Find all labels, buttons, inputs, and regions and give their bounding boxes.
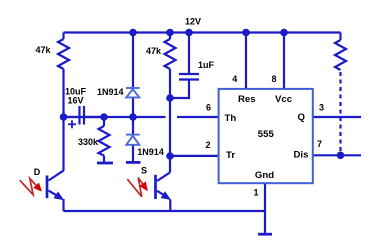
diode D1 1N914 symbol bbox=[126, 88, 140, 97]
node junction D1 on rail bbox=[129, 29, 137, 37]
node junction 1uF bottom bbox=[166, 94, 174, 102]
wire right resistor top lead bbox=[339, 33, 341, 41]
wire pin 1 Gnd lead bbox=[264, 183, 266, 234]
wire 47k2 bottom lead bbox=[169, 69, 171, 98]
wire diode D2 bottom lead bbox=[132, 145, 134, 161]
node junction 1uF on rail bbox=[185, 29, 193, 37]
node A junction left bbox=[60, 113, 68, 121]
op-amp U1 555 IC box bbox=[219, 89, 313, 183]
wire left column lower bbox=[62, 117, 64, 171]
wire 10uF left lead bbox=[64, 116, 79, 118]
capacitor C1 plus sign bbox=[68, 120, 76, 128]
wire 1uF bottom lead bbox=[170, 81, 189, 99]
svg-text:3: 3 bbox=[319, 103, 324, 113]
svg-text:S: S bbox=[141, 166, 147, 176]
terminal bar below 330k bbox=[97, 162, 113, 165]
light arrows to transistor D bbox=[20, 179, 42, 195]
node junction Tr bbox=[166, 152, 174, 160]
svg-text:6: 6 bbox=[206, 103, 211, 113]
wire 330k bottom lead bbox=[103, 156, 105, 164]
svg-text:Res: Res bbox=[238, 94, 256, 105]
wire left column top bbox=[62, 33, 64, 40]
svg-text:1N914: 1N914 bbox=[97, 87, 124, 97]
node junction 47k2 on rail bbox=[166, 29, 174, 37]
svg-text:Th: Th bbox=[225, 113, 237, 124]
svg-text:8: 8 bbox=[271, 74, 276, 84]
wire Th horizontal right segment to pin 6 bbox=[177, 116, 219, 118]
resistor R3 330k bbox=[99, 126, 110, 156]
wire left column middle bbox=[62, 69, 64, 117]
wire 10uF right lead bbox=[85, 116, 104, 118]
terminal bar below D2 bbox=[126, 161, 141, 164]
svg-text:7: 7 bbox=[317, 139, 322, 149]
svg-text:330k: 330k bbox=[78, 137, 99, 147]
wire top 12V rail bbox=[64, 31, 341, 33]
svg-text:Q: Q bbox=[298, 112, 306, 123]
svg-text:4: 4 bbox=[232, 74, 237, 84]
wire dashed to Dis node bbox=[339, 72, 341, 152]
diode D2 1N914 symbol bbox=[126, 135, 140, 145]
node junction 330k bbox=[100, 113, 108, 121]
svg-text:16V: 16V bbox=[67, 95, 83, 105]
wire 1uF top lead bbox=[188, 33, 190, 74]
wire pin 8 Vcc stub bbox=[283, 33, 285, 90]
wire diode D1 bottom lead bbox=[132, 97, 134, 117]
ground bar bbox=[258, 233, 272, 236]
wire 47k2 top lead bbox=[169, 33, 171, 40]
resistor R2 47k second bbox=[165, 39, 176, 69]
svg-text:1N914: 1N914 bbox=[137, 147, 164, 157]
wire pin 4 Res stub bbox=[245, 33, 247, 90]
svg-text:Vcc: Vcc bbox=[275, 94, 293, 105]
svg-text:555: 555 bbox=[258, 129, 275, 140]
wire bottom rail bbox=[64, 210, 266, 212]
capacitor C2 1uF plates bbox=[179, 74, 199, 80]
node junction Dis dashed bbox=[337, 152, 345, 160]
transistor Q2 phototransistor S bbox=[156, 172, 171, 211]
wire Th horizontal left segment bbox=[64, 116, 166, 118]
svg-text:1uF: 1uF bbox=[198, 60, 215, 70]
svg-text:47k: 47k bbox=[35, 45, 51, 55]
node junction pin4 on rail bbox=[242, 29, 250, 37]
transistor Q1 phototransistor D bbox=[47, 171, 64, 211]
light arrows to transistor S bbox=[127, 178, 147, 197]
svg-text:2: 2 bbox=[205, 140, 210, 150]
wire diode D1 top lead from rail bbox=[132, 33, 134, 88]
wire Tr pin 2 horizontal bbox=[170, 155, 219, 157]
svg-text:Tr: Tr bbox=[226, 150, 235, 161]
svg-text:D: D bbox=[34, 167, 41, 177]
wire diode D2 top lead bbox=[132, 117, 134, 135]
node junction pin8 on rail bbox=[280, 29, 288, 37]
wire middle column to transistor S bbox=[169, 156, 171, 173]
svg-text:Dis: Dis bbox=[294, 150, 309, 161]
wire pin 3 Q output bbox=[313, 116, 361, 118]
node junction diode column bbox=[129, 113, 137, 121]
resistor R4 right bbox=[335, 40, 346, 70]
svg-text:Gnd: Gnd bbox=[255, 170, 274, 181]
wire 330k top lead bbox=[103, 117, 105, 126]
svg-text:47k: 47k bbox=[146, 46, 162, 56]
wire middle column to Tr node bbox=[169, 98, 171, 156]
wire pin 7 Dis output bbox=[313, 154, 361, 156]
resistor R1 47k left bbox=[58, 39, 69, 69]
svg-text:12V: 12V bbox=[185, 17, 201, 27]
svg-text:1: 1 bbox=[253, 188, 258, 198]
capacitor C1 10uF plates bbox=[80, 106, 85, 125]
